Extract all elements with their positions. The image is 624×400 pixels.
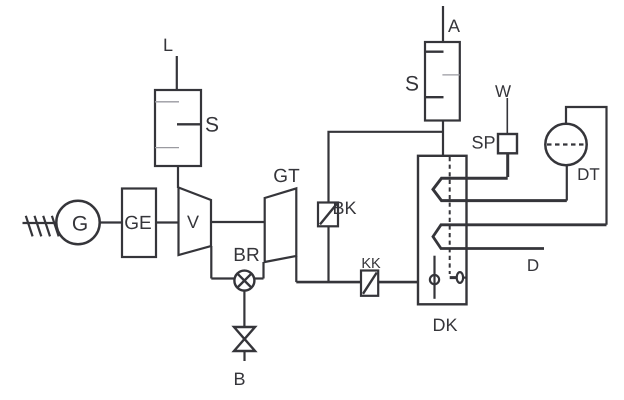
generator G [56, 201, 99, 244]
svg-text:S: S [405, 73, 419, 96]
tank DT [545, 124, 600, 184]
crossover duct V to GT [211, 222, 265, 279]
svg-text:DT: DT [577, 165, 600, 184]
svg-text:L: L [163, 35, 173, 55]
wire: exhaust line to KK [296, 281, 361, 284]
svg-text:SP: SP [471, 133, 495, 153]
wire: W to SP [506, 98, 508, 134]
turbine V [179, 188, 212, 256]
spray nozzle 2 [433, 225, 607, 249]
wire: shaft GE to V [156, 221, 179, 223]
wire: shaft G to GE [100, 221, 122, 223]
level gauge in DK [430, 256, 439, 299]
svg-text:D: D [527, 256, 539, 275]
svg-text:GE: GE [124, 213, 151, 234]
gearbox GE [122, 189, 156, 258]
wire: DT bottom riser [566, 165, 568, 200]
wire: DT top loop [566, 107, 607, 225]
valve B [233, 327, 255, 389]
wire: KK to DK [378, 281, 418, 284]
wire: S to DK [442, 121, 444, 156]
valve BR [233, 245, 259, 291]
wire: S to V [177, 166, 179, 188]
pump SP [471, 133, 517, 178]
condenser KK [361, 256, 381, 296]
svg-text:A: A [448, 16, 460, 36]
separator S (left) [155, 90, 219, 166]
svg-text:W: W [495, 82, 511, 101]
drain fitting in DK [450, 272, 467, 283]
svg-text:S: S [205, 114, 219, 137]
separator S (right) [405, 42, 460, 121]
svg-text:KK: KK [361, 256, 381, 272]
ground hatching [26, 216, 59, 237]
turbine GT [265, 166, 300, 262]
svg-text:V: V [187, 212, 199, 232]
svg-text:DK: DK [432, 315, 457, 335]
deaerator DK [418, 156, 467, 335]
wire: BK branch riser upper and across to S [329, 132, 443, 203]
wire: BK branch riser lower [327, 226, 329, 282]
valve BK [318, 198, 357, 226]
wire: wall to generator [23, 222, 57, 224]
svg-text:G: G [72, 213, 88, 236]
svg-text:B: B [233, 369, 245, 389]
spray nozzle 1 [433, 178, 567, 200]
wire: BR to valve B [243, 291, 245, 327]
wire: GT exhaust down [295, 256, 297, 282]
wire: A inlet [442, 6, 444, 42]
svg-text:GT: GT [273, 166, 300, 187]
svg-text:BR: BR [233, 245, 259, 266]
svg-text:BK: BK [332, 198, 356, 218]
wire: L inlet [176, 56, 178, 90]
